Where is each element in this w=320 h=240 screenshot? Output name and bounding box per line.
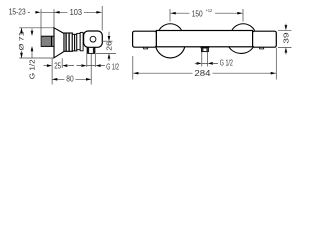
dimension 150 arrow right [237, 12, 242, 15]
dimension 15-23 leader dash [28, 11, 30, 13]
center fitting leader dashes [195, 62, 218, 64]
extension line escutcheon face upper [53, 9, 55, 28]
dimension 284 line [133, 72, 276, 74]
adapter collar [72, 34, 77, 51]
svg-text:G 1/2: G 1/2 [28, 59, 37, 79]
svg-text:150: 150 [192, 8, 203, 18]
outlet G 1/2 leader dashes [68, 65, 105, 67]
dimension 26 arrow down [108, 36, 111, 41]
dimension 103 line [41, 11, 102, 13]
dimension 25 extension line left [51, 58, 53, 84]
diameter 71 extension line bottom [19, 57, 54, 59]
dimension 26 stub top [108, 32, 110, 37]
dimension 39 arrow up [285, 47, 288, 52]
dimension 15-23 text [9, 7, 26, 17]
dimension 150 arrow left [171, 12, 176, 15]
outlet G 1/2 arrow left [96, 64, 101, 67]
handle pivot circle [90, 36, 96, 42]
wall escutcheon right upper arc [232, 24, 255, 31]
wall escutcheon left upper arc [159, 24, 182, 31]
center outlet fitting [201, 46, 210, 51]
svg-text:25: 25 [54, 61, 61, 71]
svg-text:80: 80 [66, 74, 74, 84]
diameter 71 arrow up [20, 28, 23, 33]
outlet thread extension line right [94, 54, 96, 67]
svg-text:26: 26 [104, 41, 113, 51]
diameter 71 extension line top [19, 27, 54, 29]
left handle [133, 31, 157, 47]
svg-text:39: 39 [281, 32, 290, 43]
outlet nut [87, 47, 95, 53]
dimension 25 left leader [44, 65, 48, 67]
dimension 284 arrow right [271, 72, 276, 75]
dimension 80 arrow right [86, 78, 91, 81]
svg-text:G 1/2: G 1/2 [220, 58, 233, 68]
outlet centerline extension [90, 54, 92, 85]
extension line thread end [40, 9, 42, 36]
spacer block [77, 33, 80, 49]
wall escutcheon left lower arc [156, 47, 185, 58]
center fitting arrow right [197, 62, 202, 65]
diameter 71 dimension line [21, 28, 23, 58]
right handle [253, 31, 277, 47]
dimension 25 arrow right [47, 64, 52, 67]
dimension 284 arrow left [133, 72, 138, 75]
center fitting extension lines [202, 52, 208, 66]
svg-text:284: 284 [194, 68, 210, 78]
dimension 26 text rotated [104, 41, 113, 51]
valve body [84, 31, 103, 47]
svg-text:Ø 71: Ø 71 [19, 31, 26, 50]
dimension 39 text rotated [281, 32, 290, 43]
outlet thread extension line left [86, 54, 88, 67]
svg-text:+12: +12 [206, 8, 213, 14]
svg-text:15-23: 15-23 [9, 7, 26, 17]
dimension 26 extension line top [102, 40, 113, 42]
threaded nipple hatch [41, 36, 54, 46]
center G 1/2 text [220, 58, 233, 68]
dimension 39 dimension line stubs [285, 24, 287, 55]
dimension 150 line [171, 12, 243, 14]
dimension 103 arrow right [96, 11, 101, 14]
diameter 71 text rotated [19, 31, 26, 50]
center fitting arrow left [208, 62, 213, 65]
dimension 103 text [70, 7, 83, 17]
extension line body right upper [101, 6, 103, 31]
dimension 80 line [52, 78, 91, 80]
dimension 15-23 arrow right [35, 11, 40, 14]
inlet thread arrow up [31, 46, 34, 51]
inlet thread leader stubs [31, 29, 33, 59]
ring block [80, 32, 83, 50]
outlet G 1/2 arrow right [81, 64, 86, 67]
dimension 80 text [66, 74, 74, 84]
dimension 150 extension lines [170, 9, 243, 22]
dimension 39 arrow down [285, 25, 288, 30]
inlet G 1/2 text rotated [28, 59, 37, 79]
dimension 26 extension line bottom [96, 52, 116, 54]
dimension 284 text [194, 68, 210, 78]
thermostat bar body [156, 31, 252, 47]
svg-text:G 1/2: G 1/2 [106, 61, 119, 71]
dimension 25 extension line right [61, 58, 63, 68]
union nut [64, 33, 72, 51]
dimension 25 text [54, 61, 61, 71]
svg-text:103: 103 [70, 7, 83, 17]
dimension 25 arrow left [62, 64, 67, 67]
left handle nub [144, 47, 148, 49]
dimension 150 text [192, 8, 213, 18]
outlet G 1/2 text [106, 61, 119, 71]
inlet thread arrow down [31, 31, 34, 36]
dimension 39 extension lines [278, 30, 292, 47]
diameter 71 arrow down [20, 53, 23, 58]
escutcheon cone [54, 28, 64, 58]
dimension 26 arrow up [108, 53, 111, 58]
dimension 80 arrow left [52, 78, 57, 81]
dimension 26 stub bottom [108, 58, 110, 61]
dimension 284 extension lines [133, 48, 276, 80]
right handle nub [260, 47, 264, 49]
wall escutcheon right lower arc [229, 47, 254, 54]
dimension 103 arrow left [54, 11, 59, 14]
